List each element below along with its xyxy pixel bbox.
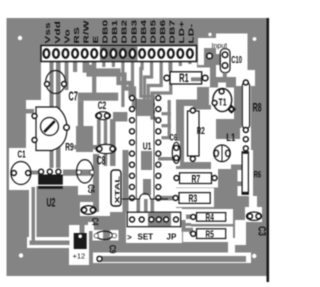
- svg-text:C5: C5: [86, 184, 96, 193]
- svg-text:Vdd: Vdd: [54, 21, 62, 44]
- svg-text:+12: +12: [73, 252, 86, 261]
- svg-text:L1: L1: [226, 132, 236, 145]
- svg-text:R6: R6: [254, 169, 262, 180]
- svg-text:R9: R9: [65, 141, 73, 153]
- svg-text:DB3: DB3: [130, 19, 138, 43]
- svg-text:DB7: DB7: [168, 20, 176, 44]
- svg-text:R8: R8: [253, 102, 262, 115]
- svg-text:C2: C2: [98, 99, 106, 111]
- svg-text:XTAL: XTAL: [113, 175, 120, 203]
- svg-text:C10: C10: [231, 53, 242, 65]
- svg-text:C7: C7: [69, 91, 78, 104]
- svg-text:R4: R4: [206, 211, 214, 223]
- svg-text:DB1: DB1: [111, 19, 119, 43]
- svg-text:JP: JP: [167, 233, 177, 242]
- svg-text:RS: RS: [73, 27, 81, 44]
- svg-text:R7: R7: [192, 173, 201, 185]
- svg-text:LD-: LD-: [188, 23, 196, 43]
- svg-text:>: >: [127, 233, 132, 242]
- svg-text:U2: U2: [47, 197, 56, 210]
- svg-text:R5: R5: [206, 228, 214, 240]
- svg-text:Vss: Vss: [44, 22, 52, 43]
- svg-text:C1: C1: [18, 148, 26, 160]
- svg-text:Vo: Vo: [63, 29, 71, 43]
- svg-text:DB6: DB6: [159, 19, 167, 43]
- svg-text:R1: R1: [179, 72, 189, 85]
- svg-text:DB0: DB0: [101, 20, 109, 44]
- svg-text:U1: U1: [143, 140, 152, 152]
- svg-text:R2: R2: [197, 124, 205, 136]
- svg-text:SET: SET: [138, 233, 154, 242]
- svg-text:DB2: DB2: [121, 20, 129, 44]
- svg-text:E: E: [92, 35, 100, 43]
- svg-text:R3: R3: [189, 192, 198, 204]
- svg-text:DB4: DB4: [140, 19, 148, 43]
- svg-text:DB5: DB5: [149, 19, 157, 43]
- svg-text:C9: C9: [107, 245, 117, 254]
- svg-text:T1: T1: [219, 96, 227, 108]
- svg-text:C3: C3: [256, 226, 269, 236]
- svg-text:LD+: LD+: [178, 20, 186, 43]
- svg-text:R/W: R/W: [82, 20, 90, 44]
- svg-text:C8: C8: [97, 153, 106, 166]
- svg-text:C6: C6: [170, 132, 178, 143]
- svg-text:C4: C4: [90, 218, 101, 226]
